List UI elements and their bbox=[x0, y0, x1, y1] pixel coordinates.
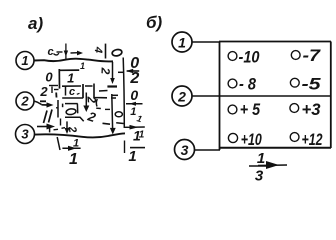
svg-text:1: 1 bbox=[21, 53, 28, 68]
svg-text:-5: -5 bbox=[302, 75, 322, 94]
svg-text:2: 2 bbox=[129, 70, 139, 87]
svg-text:+ 5: + 5 bbox=[240, 100, 261, 119]
svg-text:3: 3 bbox=[181, 142, 189, 158]
svg-text:- 8: - 8 bbox=[239, 75, 256, 94]
svg-text:2: 2 bbox=[39, 84, 48, 99]
svg-text:а): а) bbox=[28, 14, 43, 33]
svg-text:-10: -10 bbox=[239, 48, 260, 67]
svg-text:c: c bbox=[48, 46, 54, 58]
svg-text:1: 1 bbox=[67, 71, 74, 86]
svg-text:3: 3 bbox=[21, 127, 29, 142]
svg-text:3: 3 bbox=[255, 168, 264, 183]
svg-text:+10: +10 bbox=[241, 130, 262, 149]
svg-text:0: 0 bbox=[130, 87, 138, 103]
svg-text:2: 2 bbox=[20, 94, 29, 109]
svg-text:1: 1 bbox=[178, 35, 186, 51]
svg-text:c: c bbox=[69, 86, 75, 98]
svg-text:1: 1 bbox=[130, 106, 136, 118]
svg-text:2: 2 bbox=[177, 89, 186, 105]
svg-text:+3: +3 bbox=[302, 100, 322, 119]
svg-text:1: 1 bbox=[139, 130, 145, 141]
svg-text:1: 1 bbox=[128, 148, 136, 165]
svg-text:1: 1 bbox=[257, 150, 265, 167]
svg-text:+12: +12 bbox=[302, 130, 323, 149]
svg-text:б): б) bbox=[146, 13, 163, 32]
svg-text:2: 2 bbox=[98, 66, 112, 74]
svg-text:-7: -7 bbox=[303, 46, 322, 65]
svg-text:1: 1 bbox=[69, 151, 78, 168]
svg-text:0: 0 bbox=[45, 70, 53, 85]
svg-text:1: 1 bbox=[80, 61, 85, 71]
svg-text:4: 4 bbox=[92, 45, 105, 53]
